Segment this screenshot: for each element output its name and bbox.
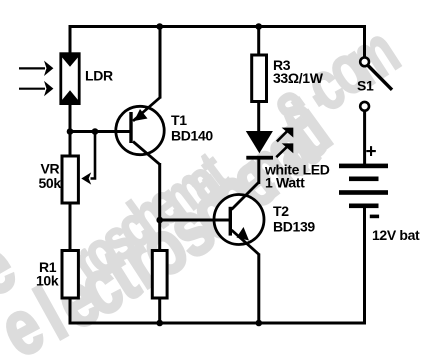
svg-text:1 Watt: 1 Watt: [265, 175, 305, 191]
svg-text:BD140: BD140: [171, 128, 213, 144]
svg-text:T2: T2: [273, 203, 289, 219]
svg-text:12V bat: 12V bat: [372, 227, 420, 243]
svg-text:10k: 10k: [36, 273, 59, 289]
svg-text:BD139: BD139: [273, 219, 315, 235]
svg-text:33Ω/1W: 33Ω/1W: [273, 70, 324, 86]
svg-text:T1: T1: [171, 112, 187, 128]
svg-text:LDR: LDR: [85, 68, 113, 84]
svg-text:S1: S1: [357, 78, 374, 94]
svg-text:+: +: [366, 142, 377, 163]
svg-text:50k: 50k: [39, 175, 62, 191]
